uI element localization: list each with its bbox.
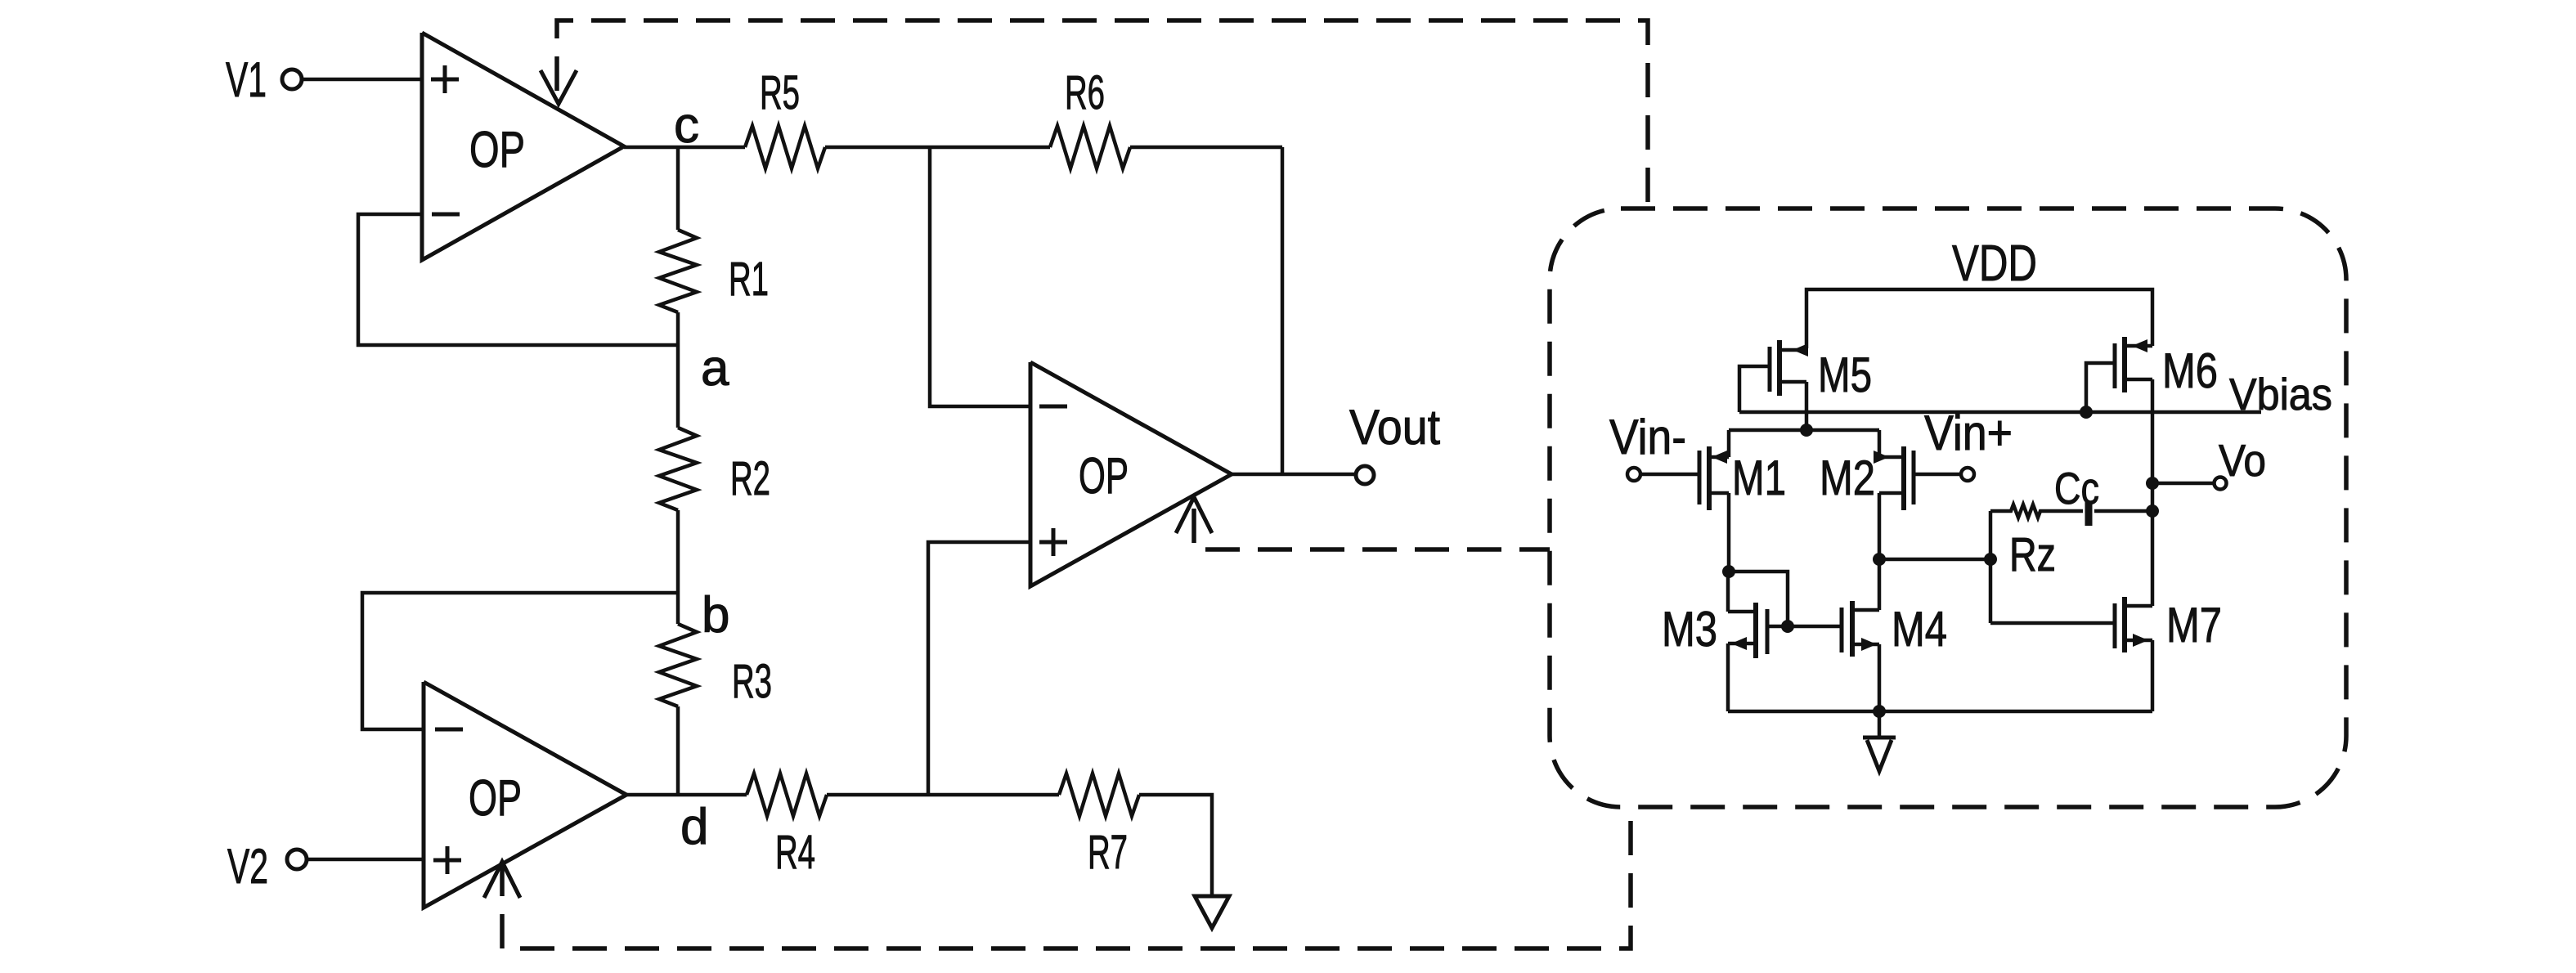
junction dot Rz branch [1984, 553, 1997, 566]
transistor M3 leads [1728, 572, 1756, 711]
transistor M2 leads [1879, 430, 1904, 610]
svg-text:a: a [701, 340, 729, 397]
transistor M4 leads [1852, 610, 1879, 711]
wire Rz branch vertical [1989, 511, 1993, 623]
op-amp U2 minus input sign [435, 728, 463, 732]
svg-text:R1: R1 [729, 253, 769, 306]
arrow into U3 [1176, 497, 1212, 533]
transistor M1 gate lead [1642, 473, 1699, 477]
wire bottom rail [1728, 710, 2152, 714]
svg-text:OP: OP [469, 122, 525, 178]
svg-text:M4: M4 [1892, 602, 1947, 657]
wire node c down to R1 [676, 147, 680, 230]
wire V1 to U1+ [301, 78, 422, 82]
junction dot M6 gate on Vbias [2080, 406, 2093, 419]
transistor M1 arrow [1712, 451, 1727, 464]
resistor R6 [1050, 126, 1130, 168]
op-amp U3 plus input sign [1039, 528, 1067, 556]
transistor M5 leads [1779, 350, 1806, 430]
resistor R1 [659, 230, 697, 312]
op-amp U2 plus input sign [433, 846, 461, 874]
transistor M5 gate lead [1739, 366, 1770, 412]
resistor R7 [1059, 773, 1139, 816]
transistor M5 channel [1777, 340, 1782, 396]
transistor M6 arrow [2132, 339, 2147, 352]
op-amp U1 (top-left OP) [422, 33, 624, 260]
transistor M3 channel [1753, 603, 1758, 658]
transistor M1 gate bar [1698, 451, 1702, 504]
wire R6 to feedback corner [1130, 146, 1282, 150]
wire R3 down to node d [676, 706, 680, 795]
wire ground stem [1878, 711, 1882, 738]
junction dot on gate line [1781, 620, 1794, 633]
transistor M5 gate bar [1768, 347, 1772, 392]
wire R6 feedback down to U3 output [1281, 147, 1285, 474]
svg-text:M6: M6 [2162, 343, 2218, 398]
op-amp U1 plus input sign [431, 65, 459, 93]
wire M3 M4 gate line [1767, 625, 1842, 629]
terminal V2 [287, 850, 307, 869]
wire U3 plus branch [928, 542, 1030, 795]
terminal V1 [282, 69, 302, 89]
Vbias rail [1739, 410, 2261, 415]
wire U2 output to node d and R4 [626, 793, 747, 797]
dashed leader from U1 arrow to box top [557, 20, 1648, 204]
svg-text:R5: R5 [760, 66, 800, 119]
wire U2 minus feedback [362, 593, 678, 729]
op-amp U1 minus input sign [432, 213, 460, 217]
junction dot ground [1873, 705, 1886, 718]
wire U3 output to Vout [1232, 473, 1357, 477]
wire R4 to U3 plus branch [827, 793, 1059, 797]
transistor M7 channel [2122, 597, 2127, 652]
terminal Vin- [1627, 468, 1640, 481]
transistor M4 channel [1850, 601, 1855, 657]
svg-text:Vout: Vout [1349, 400, 1440, 455]
svg-text:R2: R2 [730, 452, 770, 505]
svg-text:R4: R4 [775, 826, 815, 879]
VDD rail [1806, 289, 2152, 348]
svg-text:V1: V1 [226, 52, 267, 107]
wire drain node to Rz branch [1879, 558, 1990, 562]
svg-text:V2: V2 [227, 839, 268, 894]
dashed leader from U3 arrow to box left edge [1194, 509, 1550, 549]
svg-text:Vbias: Vbias [2229, 369, 2332, 419]
ground symbol [1863, 738, 1896, 771]
junction dot M1-M3 drain [1722, 565, 1735, 578]
wire mirror gate tie [1729, 572, 1788, 626]
transistor M2 channel [1901, 446, 1906, 510]
transistor M2 gate lead [1914, 473, 1959, 477]
wire tail node [1729, 428, 1879, 433]
svg-text:R3: R3 [732, 655, 772, 708]
junction dot M2-M4 drain node [1873, 553, 1886, 566]
capacitor Cc plate [2085, 501, 2093, 526]
svg-text:Vo: Vo [2219, 435, 2266, 486]
transistor M6 leads [2125, 346, 2152, 511]
junction dot Cc node [2146, 504, 2159, 518]
svg-text:Cc: Cc [2054, 463, 2099, 513]
junction dot Vo node [2146, 477, 2159, 490]
svg-text:M5: M5 [1818, 347, 1872, 402]
svg-text:OP: OP [1079, 448, 1129, 504]
wire Cc to M6 drain [2094, 509, 2152, 513]
transistor M1 leads [1709, 430, 1729, 572]
op-amp U2 (bottom-left OP) [424, 682, 626, 908]
transistor M7 gate bar [2113, 603, 2117, 648]
wire R1 to R2 through node a [676, 312, 680, 428]
transistor M3 gate bar [1766, 609, 1770, 654]
transistor M2 gate bar [1912, 451, 1916, 504]
transistor M4 gate bar [1840, 608, 1844, 652]
resistor R5 [745, 126, 825, 168]
arrow into U2 [484, 862, 520, 898]
svg-text:OP: OP [469, 770, 522, 827]
terminal Vout [1356, 466, 1374, 484]
transistor M4 arrow [1861, 638, 1877, 651]
svg-text:R6: R6 [1065, 66, 1105, 119]
svg-text:Vin+: Vin+ [1924, 406, 2013, 460]
ground at R7 [1195, 896, 1229, 928]
arrow into U1 [541, 70, 577, 104]
transistor M6 channel [2122, 337, 2127, 392]
wire U1 output to node c and R5 [624, 146, 745, 150]
wire R2 to R3 through node b [676, 510, 680, 624]
wire V2 to U2+ [306, 858, 424, 862]
svg-text:M2: M2 [1820, 451, 1875, 505]
transistor M6 gate bar [2113, 343, 2117, 388]
svg-text:M1: M1 [1732, 451, 1786, 505]
svg-text:c: c [674, 97, 699, 154]
op-amp U3 minus input sign [1039, 405, 1067, 409]
resistor R2 [659, 428, 697, 510]
svg-text:d: d [680, 799, 708, 855]
transistor M2 arrow [1874, 451, 1889, 464]
svg-text:Vin-: Vin- [1609, 410, 1686, 464]
transistor M7 arrow [2133, 634, 2148, 647]
wire node between R5,R6 down to U3 minus [930, 147, 1030, 406]
transistor M5 arrow [1793, 343, 1808, 356]
dashed rounded box of CMOS op-amp [1550, 208, 2346, 807]
dashed leader from U2 arrow along bottom [502, 809, 1631, 948]
junction dot tail [1800, 424, 1813, 437]
wire R5 to R6 [825, 146, 1050, 150]
transistor M7 gate lead [1990, 621, 2115, 625]
wire R7 to ground corner [1139, 795, 1212, 896]
transistor M1 channel [1707, 446, 1712, 510]
svg-text:M7: M7 [2166, 598, 2222, 652]
terminal Vo [2215, 478, 2227, 490]
transistor M6 gate lead [2086, 363, 2115, 412]
svg-text:Rz: Rz [2009, 528, 2056, 581]
wire Vo [2152, 482, 2214, 486]
svg-text:M3: M3 [1662, 602, 1717, 657]
svg-text:R7: R7 [1088, 826, 1128, 879]
resistor Rz [1990, 504, 2083, 518]
transistor M7 leads [2125, 511, 2152, 711]
resistor R3 [659, 624, 697, 706]
resistor R4 [747, 773, 827, 816]
transistor M3 arrow [1731, 637, 1747, 650]
svg-text:b: b [702, 587, 729, 643]
wire U1 minus feedback [358, 214, 678, 345]
terminal Vin+ [1961, 468, 1974, 481]
op-amp U3 (middle OP) [1030, 362, 1232, 586]
svg-text:VDD: VDD [1952, 235, 2037, 292]
